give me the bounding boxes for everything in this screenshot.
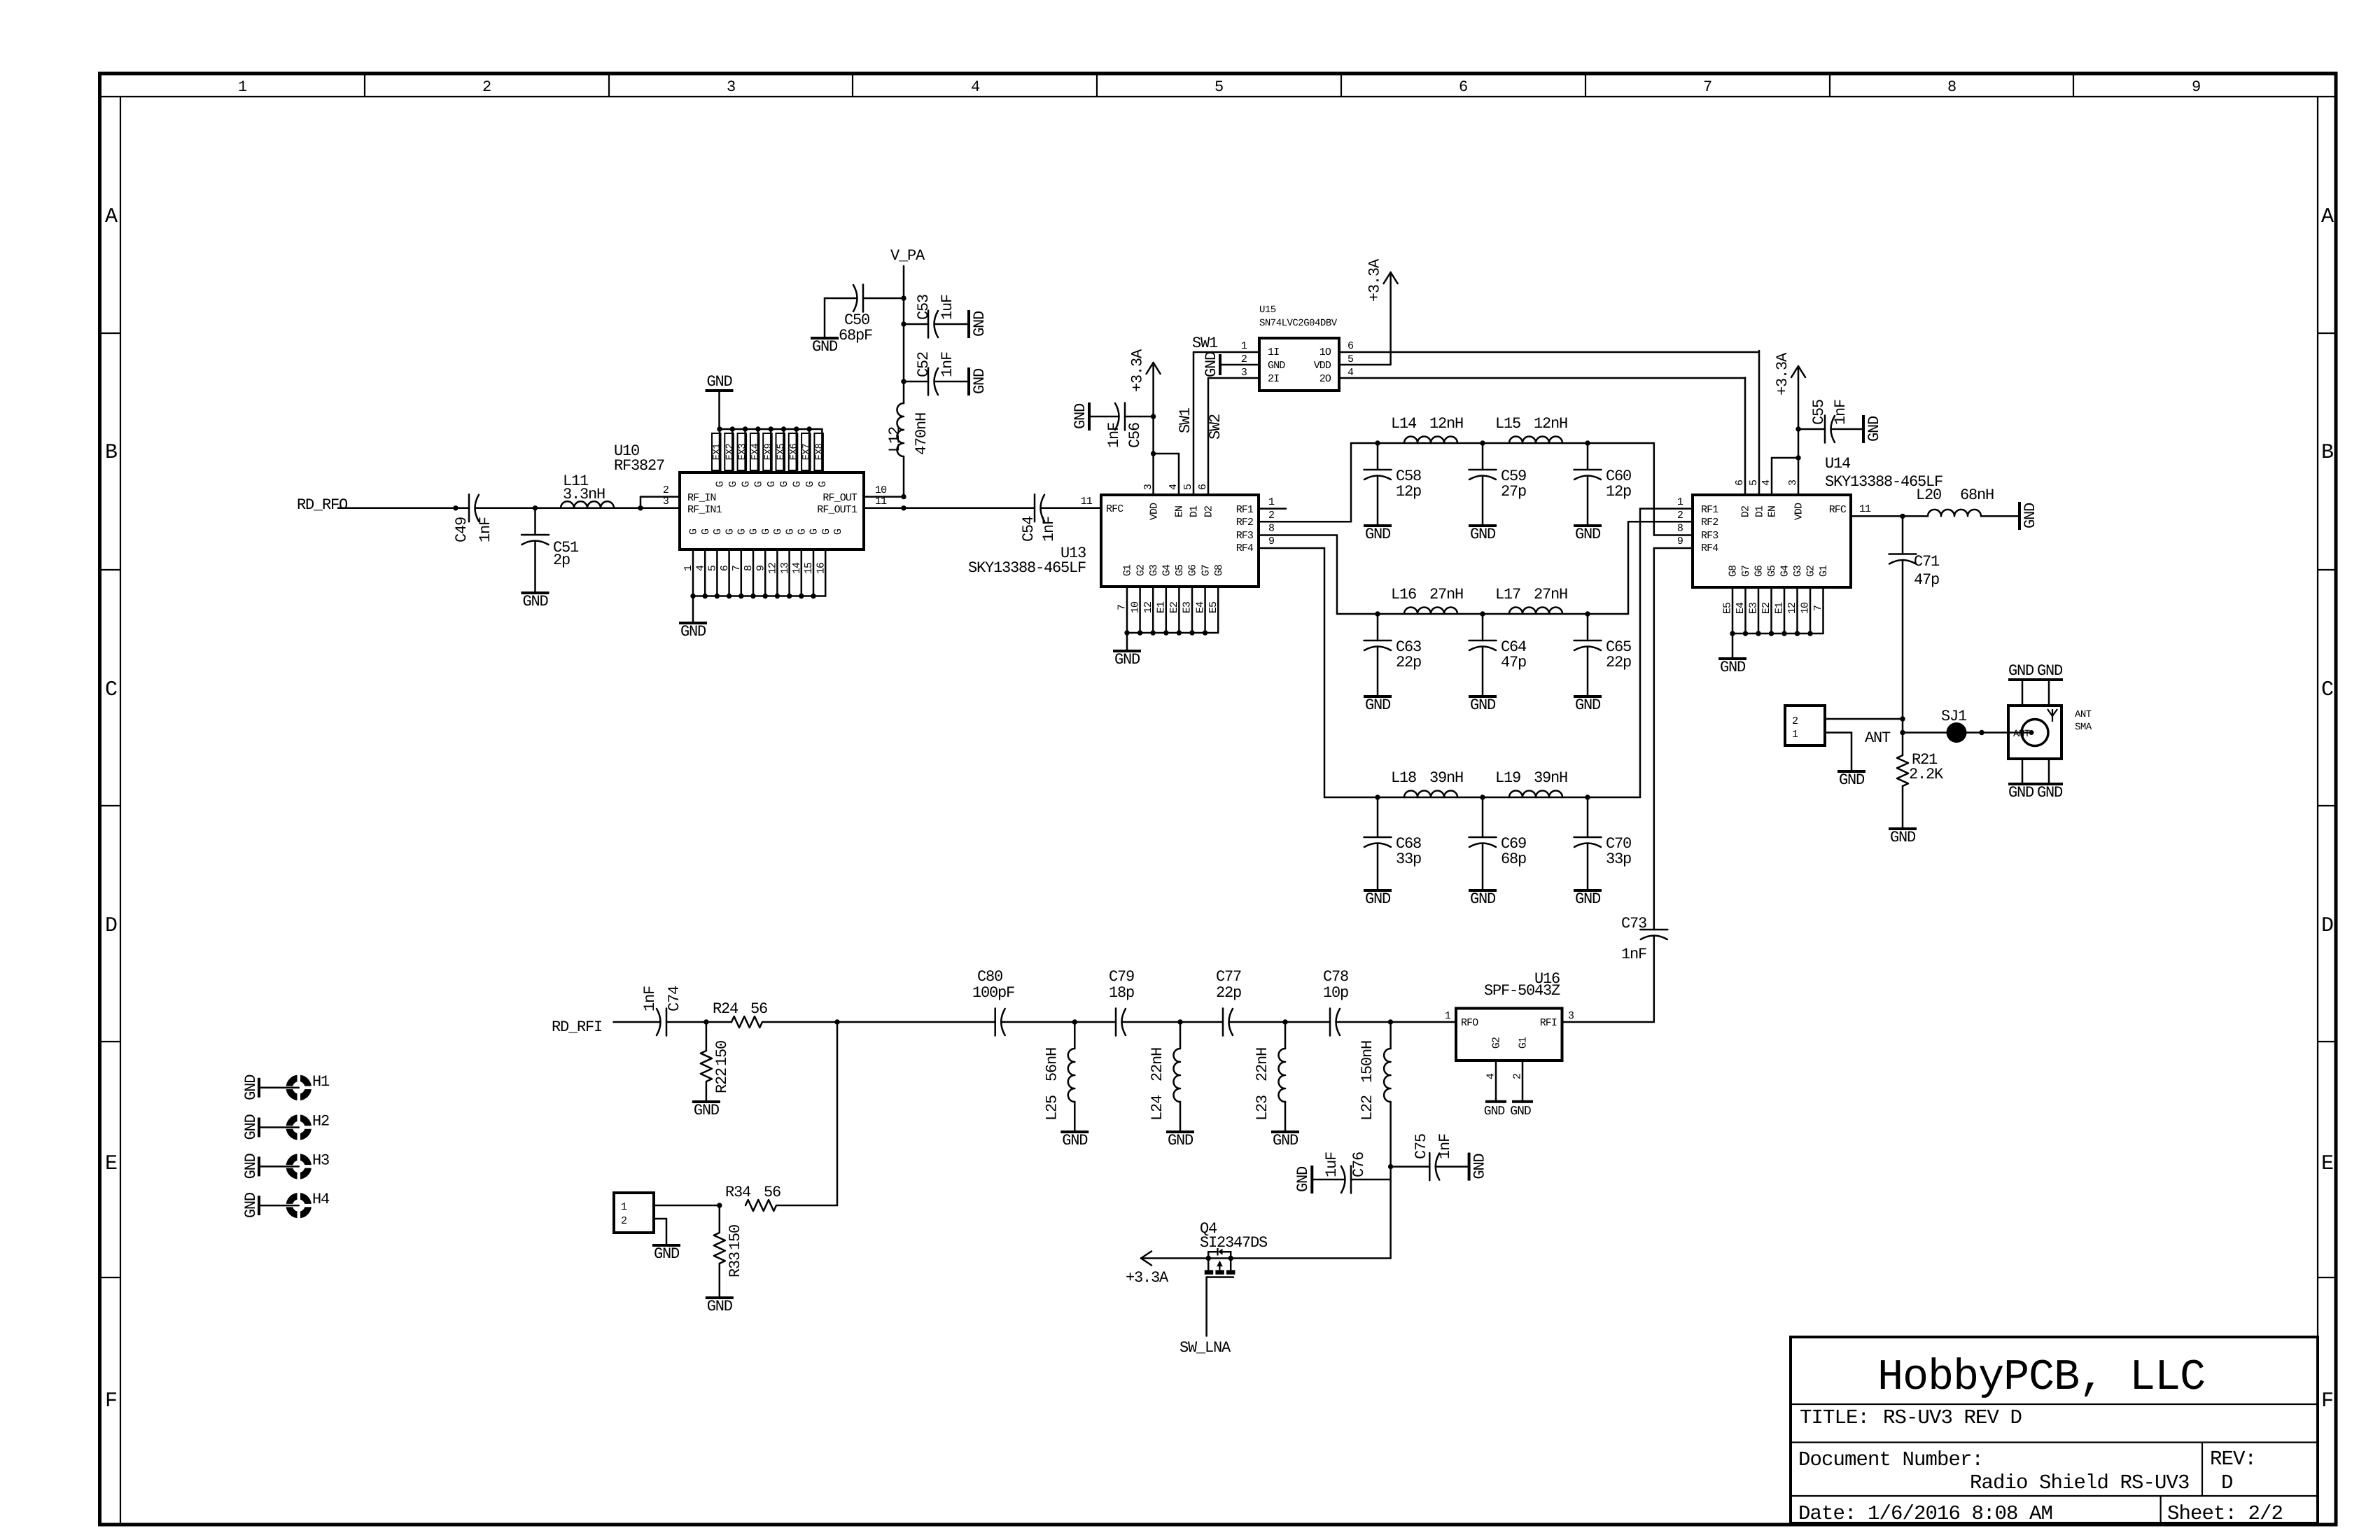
svg-text:GND: GND	[522, 593, 548, 610]
svg-text:1: 1	[621, 1201, 627, 1213]
svg-text:GND: GND	[1471, 1154, 1489, 1179]
svg-text:1nF: 1nF	[1832, 400, 1849, 425]
svg-text:G: G	[820, 528, 832, 535]
svg-text:33p: 33p	[1396, 850, 1421, 868]
svg-text:E: E	[105, 1152, 117, 1176]
svg-text:C: C	[2321, 678, 2333, 702]
svg-text:GND: GND	[706, 373, 732, 391]
svg-text:33p: 33p	[1606, 850, 1631, 868]
svg-text:2: 2	[1268, 510, 1274, 521]
svg-text:EN: EN	[1767, 506, 1779, 517]
svg-text:2: 2	[482, 78, 491, 96]
svg-text:56: 56	[750, 1000, 767, 1018]
svg-text:G: G	[712, 528, 724, 535]
svg-text:GND: GND	[1294, 1166, 1312, 1192]
svg-text:GND: GND	[1575, 890, 1601, 908]
svg-text:F: F	[2321, 1389, 2332, 1413]
svg-text:G1: G1	[1518, 1037, 1529, 1049]
svg-text:1nF: 1nF	[477, 517, 494, 542]
svg-text:E2: E2	[1168, 602, 1180, 613]
svg-text:L16: L16	[1391, 586, 1416, 603]
svg-text:8: 8	[1268, 523, 1275, 535]
svg-text:A: A	[2321, 205, 2334, 229]
svg-text:E2: E2	[1760, 603, 1772, 614]
svg-text:C74: C74	[666, 986, 683, 1011]
svg-text:GND: GND	[1890, 829, 1916, 846]
svg-text:E1: E1	[1774, 602, 1786, 614]
svg-text:H2: H2	[312, 1113, 329, 1130]
svg-text:GND: GND	[2008, 784, 2034, 801]
svg-text:GND: GND	[1365, 526, 1391, 543]
svg-text:3: 3	[1787, 479, 1799, 486]
svg-text:B: B	[105, 441, 117, 465]
svg-text:GND: GND	[1062, 1132, 1088, 1149]
svg-text:ANT: ANT	[2075, 709, 2092, 720]
svg-text:D: D	[2221, 1471, 2233, 1494]
svg-text:G3: G3	[1148, 564, 1160, 576]
svg-text:GND: GND	[1072, 403, 1089, 429]
svg-text:4: 4	[1485, 1073, 1497, 1079]
svg-text:1I: 1I	[1268, 346, 1279, 358]
svg-text:G2: G2	[1135, 565, 1147, 576]
svg-text:C54: C54	[1020, 516, 1037, 542]
svg-text:11: 11	[875, 496, 887, 507]
svg-text:470nH: 470nH	[913, 413, 930, 455]
svg-text:G4: G4	[1161, 564, 1173, 576]
svg-text:E4: E4	[1735, 602, 1746, 614]
svg-text:1: 1	[1445, 1010, 1451, 1022]
svg-text:GND: GND	[812, 338, 838, 356]
svg-text:150: 150	[713, 1041, 731, 1066]
svg-text:L20: L20	[1916, 486, 1941, 504]
svg-text:1O: 1O	[1319, 346, 1331, 358]
svg-text:13: 13	[779, 562, 791, 574]
svg-text:V_PA: V_PA	[890, 247, 925, 265]
svg-text:12: 12	[767, 563, 779, 574]
svg-text:E4: E4	[1194, 601, 1206, 613]
svg-text:12nH: 12nH	[1534, 415, 1567, 433]
svg-text:GND: GND	[1114, 651, 1140, 668]
svg-text:G: G	[715, 481, 727, 487]
svg-text:RS-UV3 REV D: RS-UV3 REV D	[1883, 1406, 2022, 1429]
svg-text:GND: GND	[1470, 890, 1496, 908]
svg-text:10: 10	[875, 484, 887, 496]
svg-text:27p: 27p	[1501, 483, 1526, 500]
svg-text:GND: GND	[242, 1114, 260, 1140]
svg-text:GND: GND	[2037, 662, 2063, 680]
svg-text:2O: 2O	[1319, 373, 1331, 385]
svg-text:GND: GND	[1575, 526, 1601, 543]
svg-text:G: G	[804, 481, 816, 487]
svg-text:1: 1	[1677, 496, 1683, 508]
svg-text:4: 4	[1347, 367, 1354, 379]
svg-text:RF_OUT1: RF_OUT1	[817, 504, 857, 516]
svg-text:REV:: REV:	[2210, 1448, 2256, 1471]
svg-text:39nH: 39nH	[1429, 769, 1463, 787]
svg-text:1: 1	[1268, 496, 1275, 508]
svg-text:ANT: ANT	[2013, 729, 2030, 740]
svg-text:2: 2	[1792, 715, 1798, 727]
svg-text:7: 7	[1116, 605, 1128, 610]
svg-text:150: 150	[727, 1225, 744, 1250]
svg-text:E5: E5	[1722, 602, 1734, 614]
svg-text:U14: U14	[1825, 455, 1851, 472]
svg-text:10: 10	[1800, 602, 1812, 614]
svg-text:GND: GND	[2008, 662, 2034, 680]
svg-text:GND: GND	[1470, 696, 1496, 714]
svg-text:GND: GND	[694, 1102, 720, 1119]
svg-text:G: G	[688, 528, 700, 535]
svg-text:2p: 2p	[553, 552, 570, 569]
svg-text:22p: 22p	[1396, 654, 1421, 671]
svg-text:SW2: SW2	[1207, 414, 1224, 440]
svg-text:L23: L23	[1254, 1095, 1271, 1121]
svg-text:C53: C53	[915, 295, 932, 320]
svg-text:SJ1: SJ1	[1941, 708, 1967, 725]
svg-text:+3.3A: +3.3A	[1129, 349, 1147, 392]
svg-text:4: 4	[1168, 484, 1179, 490]
svg-text:G7: G7	[1200, 565, 1212, 576]
svg-text:2: 2	[1677, 510, 1683, 521]
svg-text:D: D	[105, 914, 117, 938]
svg-text:VDD: VDD	[1314, 360, 1331, 372]
svg-text:VDD: VDD	[1148, 503, 1160, 520]
svg-text:G1: G1	[1818, 565, 1830, 577]
svg-text:GND: GND	[1720, 659, 1746, 676]
svg-text:G: G	[724, 528, 736, 535]
svg-text:R22: R22	[713, 1068, 731, 1093]
svg-text:EX7: EX7	[801, 444, 813, 461]
svg-text:22p: 22p	[1216, 984, 1241, 1002]
svg-text:1nF: 1nF	[1105, 423, 1123, 448]
svg-text:5: 5	[1748, 479, 1760, 486]
svg-text:L17: L17	[1495, 586, 1520, 603]
svg-text:1nF: 1nF	[1621, 946, 1646, 963]
svg-text:GND: GND	[242, 1192, 260, 1218]
svg-text:10p: 10p	[1323, 984, 1348, 1002]
svg-text:EX3: EX3	[737, 444, 748, 461]
svg-text:SW1: SW1	[1177, 407, 1194, 433]
svg-text:EX1: EX1	[712, 444, 723, 461]
svg-text:L15: L15	[1495, 415, 1520, 433]
svg-text:5: 5	[707, 565, 719, 571]
svg-text:ANT: ANT	[1865, 729, 1891, 747]
svg-text:12nH: 12nH	[1429, 415, 1463, 433]
svg-text:H1: H1	[312, 1073, 330, 1091]
svg-text:G5: G5	[1174, 564, 1186, 576]
svg-text:G: G	[740, 481, 752, 487]
svg-text:1: 1	[1792, 729, 1798, 741]
svg-text:G: G	[817, 481, 829, 487]
svg-text:C76: C76	[1350, 1152, 1368, 1177]
svg-text:GND: GND	[1365, 890, 1391, 908]
svg-text:GND: GND	[971, 311, 988, 337]
svg-text:A: A	[105, 205, 118, 229]
svg-text:GND: GND	[1273, 1132, 1298, 1149]
svg-text:L25: L25	[1043, 1095, 1060, 1121]
svg-text:3: 3	[1142, 484, 1154, 490]
svg-text:GND: GND	[707, 1298, 733, 1315]
svg-text:RF3: RF3	[1236, 530, 1254, 542]
svg-text:RF2: RF2	[1701, 517, 1718, 528]
svg-text:G: G	[832, 528, 844, 535]
svg-text:10: 10	[1129, 601, 1141, 613]
svg-text:G2: G2	[1491, 1037, 1503, 1049]
svg-text:E3: E3	[1182, 601, 1193, 613]
svg-text:8: 8	[1947, 78, 1956, 96]
svg-text:11: 11	[1081, 496, 1093, 507]
svg-text:U15: U15	[1259, 304, 1276, 316]
svg-text:9: 9	[1677, 535, 1683, 547]
svg-text:G1: G1	[1122, 564, 1134, 576]
svg-text:L19: L19	[1495, 769, 1520, 787]
svg-text:1nF: 1nF	[1436, 1134, 1454, 1159]
svg-text:B: B	[2321, 441, 2333, 465]
svg-text:12: 12	[1142, 602, 1154, 613]
svg-text:1uF: 1uF	[1323, 1152, 1340, 1177]
svg-text:GND: GND	[1510, 1105, 1531, 1119]
svg-text:2I: 2I	[1268, 373, 1279, 385]
svg-text:GND: GND	[1365, 696, 1391, 714]
svg-text:GND: GND	[680, 623, 706, 640]
svg-text:2: 2	[1241, 353, 1247, 365]
svg-text:C73: C73	[1621, 915, 1646, 932]
svg-text:D2: D2	[1203, 506, 1215, 517]
svg-text:G6: G6	[1753, 565, 1765, 577]
svg-text:GND: GND	[1203, 351, 1220, 377]
svg-text:12p: 12p	[1396, 483, 1421, 500]
svg-text:5: 5	[1214, 78, 1223, 96]
svg-text:GND: GND	[2022, 503, 2039, 528]
svg-text:EN: EN	[1174, 506, 1186, 517]
svg-text:G2: G2	[1805, 566, 1817, 577]
svg-text:G7: G7	[1740, 566, 1752, 577]
svg-text:7: 7	[731, 566, 743, 571]
svg-text:R34: R34	[725, 1184, 751, 1201]
svg-text:C79: C79	[1109, 968, 1134, 986]
svg-text:G: G	[766, 481, 778, 487]
svg-text:3.3nH: 3.3nH	[563, 486, 605, 503]
svg-text:VDD: VDD	[1793, 503, 1805, 520]
svg-text:6: 6	[1459, 78, 1467, 96]
svg-text:SN74LVC2G04DBV: SN74LVC2G04DBV	[1259, 318, 1338, 329]
svg-text:RF1: RF1	[1236, 504, 1254, 516]
svg-text:18p: 18p	[1109, 984, 1134, 1002]
svg-text:E3: E3	[1748, 602, 1760, 614]
svg-text:RFC: RFC	[1829, 504, 1847, 516]
svg-text:GND: GND	[1484, 1105, 1505, 1119]
svg-text:L18: L18	[1391, 769, 1416, 787]
svg-text:RF4: RF4	[1236, 542, 1254, 554]
svg-text:GND: GND	[971, 368, 988, 394]
svg-text:150nH: 150nH	[1359, 1041, 1376, 1083]
svg-text:GND: GND	[2037, 784, 2063, 801]
svg-text:C71: C71	[1914, 553, 1940, 570]
svg-text:D: D	[2321, 914, 2333, 938]
svg-text:1nF: 1nF	[1040, 517, 1058, 542]
svg-text:Document Number:: Document Number:	[1798, 1448, 1983, 1471]
svg-text:L24: L24	[1149, 1095, 1166, 1121]
svg-text:G: G	[792, 481, 804, 487]
svg-text:100pF: 100pF	[972, 984, 1014, 1002]
svg-text:5: 5	[1182, 484, 1194, 490]
svg-text:1: 1	[238, 78, 247, 96]
svg-text:EX9: EX9	[763, 444, 774, 461]
svg-text:22nH: 22nH	[1149, 1048, 1166, 1081]
svg-text:8: 8	[743, 565, 755, 571]
svg-text:G: G	[700, 528, 712, 535]
svg-text:GND: GND	[1865, 416, 1883, 442]
svg-text:G6: G6	[1187, 564, 1199, 576]
svg-text:E1: E1	[1156, 601, 1168, 613]
svg-text:RF3: RF3	[1701, 530, 1718, 542]
svg-text:+3.3A: +3.3A	[1366, 258, 1384, 302]
svg-text:68pF: 68pF	[839, 327, 872, 344]
svg-text:2: 2	[621, 1215, 626, 1227]
svg-text:RF3827: RF3827	[614, 457, 664, 475]
svg-text:L22: L22	[1359, 1095, 1376, 1121]
svg-text:C: C	[105, 678, 117, 702]
svg-text:G: G	[748, 528, 760, 535]
svg-text:RF_IN1: RF_IN1	[687, 504, 722, 516]
svg-text:G: G	[778, 481, 790, 487]
svg-text:5: 5	[1347, 353, 1354, 365]
svg-text:56: 56	[764, 1184, 780, 1201]
svg-text:EX4: EX4	[750, 444, 762, 461]
svg-text:EX8: EX8	[814, 444, 825, 461]
svg-text:RF4: RF4	[1701, 542, 1718, 554]
svg-text:D1: D1	[1754, 505, 1766, 517]
svg-text:RFC: RFC	[1106, 503, 1123, 515]
svg-text:RF_IN: RF_IN	[687, 492, 716, 504]
svg-text:G: G	[797, 528, 808, 535]
svg-text:C56: C56	[1126, 423, 1144, 448]
svg-text:G: G	[784, 528, 796, 535]
svg-text:H4: H4	[312, 1191, 330, 1208]
svg-text:14: 14	[791, 562, 803, 574]
svg-text:G: G	[727, 481, 739, 487]
svg-text:HobbyPCB, LLC: HobbyPCB, LLC	[1877, 1352, 2205, 1402]
svg-text:3: 3	[1241, 367, 1247, 379]
svg-text:68p: 68p	[1501, 850, 1526, 868]
svg-text:2: 2	[663, 484, 668, 496]
svg-text:1: 1	[1241, 340, 1247, 352]
svg-text:15: 15	[803, 562, 815, 574]
svg-text:1nF: 1nF	[641, 986, 659, 1011]
svg-text:D1: D1	[1189, 505, 1200, 517]
svg-text:4: 4	[1760, 479, 1772, 486]
svg-text:47p: 47p	[1914, 571, 1939, 589]
svg-text:E: E	[2321, 1152, 2333, 1176]
svg-text:22nH: 22nH	[1254, 1048, 1271, 1081]
svg-text:C80: C80	[977, 968, 1002, 986]
svg-text:27nH: 27nH	[1534, 586, 1567, 603]
svg-text:G8: G8	[1213, 564, 1225, 576]
svg-text:F: F	[105, 1389, 116, 1413]
svg-text:G: G	[736, 528, 748, 535]
svg-text:GND: GND	[654, 1245, 680, 1263]
svg-text:C75: C75	[1413, 1134, 1430, 1159]
svg-text:GND: GND	[242, 1153, 260, 1179]
svg-text:EX6: EX6	[788, 444, 799, 461]
svg-text:GND: GND	[1575, 696, 1601, 714]
svg-text:7: 7	[1703, 78, 1711, 96]
svg-text:9: 9	[1268, 535, 1274, 547]
svg-text:8: 8	[1677, 523, 1683, 535]
svg-text:C49: C49	[453, 517, 470, 542]
svg-text:47p: 47p	[1501, 654, 1526, 671]
svg-text:G8: G8	[1728, 565, 1739, 577]
svg-text:RD_RFI: RD_RFI	[552, 1018, 602, 1036]
svg-text:16: 16	[815, 562, 827, 574]
svg-text:7: 7	[1812, 605, 1824, 611]
svg-text:6: 6	[719, 565, 731, 571]
svg-text:3: 3	[1568, 1010, 1574, 1022]
svg-text:EX2: EX2	[724, 444, 736, 461]
svg-text:RF_OUT: RF_OUT	[822, 492, 857, 504]
svg-text:68nH: 68nH	[1960, 486, 1994, 504]
svg-text:2.2K: 2.2K	[1909, 766, 1944, 783]
svg-text:+3.3A: +3.3A	[1774, 352, 1791, 395]
svg-text:G: G	[753, 481, 765, 487]
svg-text:L14: L14	[1391, 415, 1417, 433]
svg-text:GND: GND	[1470, 526, 1496, 543]
svg-text:2: 2	[1512, 1074, 1524, 1079]
svg-text:Date: 1/6/2016 8:08 AM: Date: 1/6/2016 8:08 AM	[1798, 1502, 2052, 1525]
svg-text:G: G	[760, 528, 772, 535]
svg-text:E5: E5	[1207, 601, 1219, 613]
svg-text:27nH: 27nH	[1429, 586, 1463, 603]
svg-text:9: 9	[755, 566, 766, 571]
svg-text:RF1: RF1	[1701, 504, 1718, 516]
svg-text:11: 11	[1859, 503, 1871, 515]
svg-text:TITLE:: TITLE:	[1800, 1406, 1869, 1429]
svg-text:12p: 12p	[1606, 483, 1631, 500]
svg-text:G3: G3	[1792, 565, 1804, 577]
svg-text:9: 9	[2192, 78, 2200, 96]
svg-text:H3: H3	[312, 1151, 329, 1169]
svg-text:GND: GND	[1168, 1132, 1193, 1149]
svg-text:GND: GND	[242, 1074, 260, 1100]
svg-text:RF2: RF2	[1236, 517, 1253, 528]
svg-text:C52: C52	[915, 352, 932, 377]
svg-text:1uF: 1uF	[939, 295, 956, 320]
svg-text:1nF: 1nF	[939, 352, 956, 377]
svg-text:D2: D2	[1740, 506, 1752, 517]
svg-text:3: 3	[727, 78, 735, 96]
svg-text:SMA: SMA	[2075, 722, 2092, 733]
svg-text:EX5: EX5	[776, 444, 787, 461]
svg-text:RD_RFO: RD_RFO	[297, 496, 348, 514]
svg-text:SW_LNA: SW_LNA	[1179, 1339, 1231, 1357]
svg-text:Radio Shield RS-UV3: Radio Shield RS-UV3	[1970, 1471, 2190, 1494]
svg-text:12: 12	[1786, 603, 1798, 614]
svg-text:3: 3	[663, 496, 669, 507]
svg-text:1: 1	[682, 565, 694, 571]
svg-text:L12: L12	[886, 427, 904, 452]
svg-text:6: 6	[1197, 484, 1209, 490]
svg-text:RFO: RFO	[1461, 1017, 1478, 1029]
svg-text:G4: G4	[1779, 565, 1791, 577]
svg-text:SI2347DS: SI2347DS	[1200, 1234, 1268, 1252]
svg-text:RFI: RFI	[1540, 1017, 1557, 1029]
svg-text:G5: G5	[1766, 565, 1778, 577]
svg-text:R24: R24	[713, 1000, 738, 1018]
svg-text:39nH: 39nH	[1534, 769, 1567, 787]
svg-text:4: 4	[694, 565, 706, 571]
svg-text:+3.3A: +3.3A	[1126, 1269, 1169, 1287]
svg-text:22p: 22p	[1606, 654, 1631, 671]
